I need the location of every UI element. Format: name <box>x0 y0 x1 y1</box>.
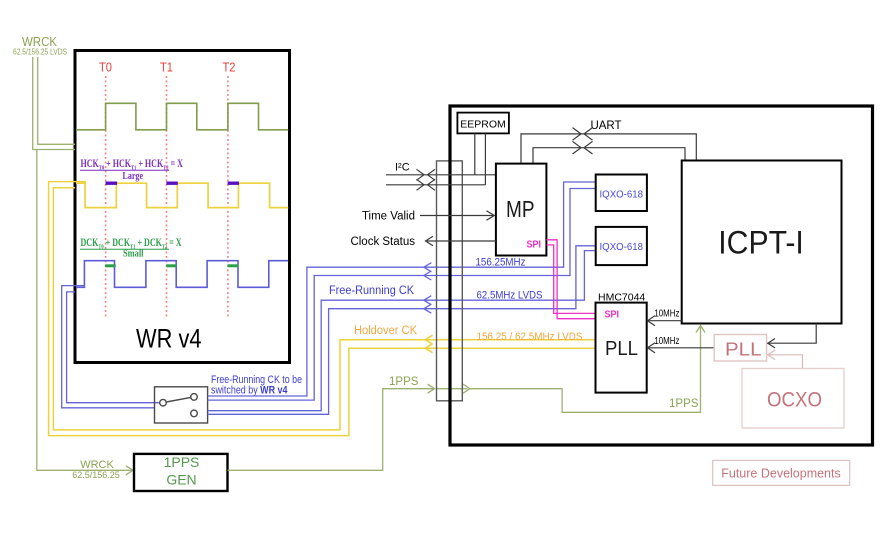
box OCXO (future development, rose) <box>742 369 844 429</box>
svg-text:T0: T0 <box>99 60 112 75</box>
wire WRCK input A (green) <box>33 57 75 150</box>
svg-text:Holdover CK: Holdover CK <box>354 325 417 337</box>
label Time Valid with arrow into MP <box>362 211 494 223</box>
label Free-Running CK <box>329 285 414 297</box>
svg-text:156.25MHz: 156.25MHz <box>476 257 526 269</box>
wire ICPT-I to future PLL (black) <box>768 324 816 348</box>
svg-text:SPI: SPI <box>527 239 542 251</box>
svg-text:I²C: I²C <box>395 162 410 174</box>
svg-text:UART: UART <box>590 120 621 132</box>
svg-text:GEN: GEN <box>166 471 196 487</box>
box WR v4 <box>75 51 290 363</box>
wire OCXO to future PLL (rose) <box>768 350 803 368</box>
box IQXO-618 #1 <box>596 175 647 212</box>
marker line T0 (red dotted) <box>105 76 107 318</box>
label HMC7044 <box>598 292 645 304</box>
label: Free-Running CK to be switched by WR v4 (blue note) <box>211 374 302 397</box>
label WRCK (top left) <box>13 35 67 57</box>
svg-text:Time Valid: Time Valid <box>362 211 415 223</box>
phase marks on HCK at T0,T1,T2 (purple) <box>106 181 240 184</box>
wire 10MHz from ICPT-I to PLL <box>648 316 682 326</box>
box Future Developments legend <box>713 460 850 485</box>
label 10MHz (lower) <box>654 336 679 347</box>
label Clock Status with arrow from MP <box>350 236 495 248</box>
label 1PPS (right, below HMC7044) <box>669 398 699 410</box>
wire switched free-running CK output line 2 (blue): switch to WR box <box>67 292 160 403</box>
box PLL (future development, rose) <box>714 335 766 362</box>
label 156.25 / 62.5MHz LVDS <box>477 331 583 343</box>
svg-text:10MHz: 10MHz <box>654 309 679 320</box>
svg-text:OCXO: OCXO <box>767 388 822 412</box>
svg-text:Future Developments: Future Developments <box>721 467 841 481</box>
label I2C <box>395 162 410 174</box>
svg-text:Large: Large <box>123 171 144 182</box>
wire WRCK input B (green) <box>38 57 75 144</box>
wire SPI line 2 (magenta): MP to HMC7044 <box>546 245 595 314</box>
box PLL (HMC7044) <box>596 303 647 393</box>
svg-text:Small: Small <box>123 249 144 260</box>
svg-text:SPI: SPI <box>605 309 620 321</box>
label SPI (at MP) <box>527 239 542 251</box>
label T0 <box>99 60 112 75</box>
marker line T2 (red dotted) <box>227 76 229 318</box>
box timing module (outer black frame) <box>450 106 873 445</box>
label T1 <box>160 60 173 75</box>
wire I2C line 2 with bidirectional arrowheads <box>386 179 485 190</box>
formula HCK sum (purple) <box>80 158 184 182</box>
label WR v4 <box>136 324 202 354</box>
label Holdover CK <box>354 325 417 337</box>
wire free-running 156.25MHz pair line 1 (blue): switch to IQXO-618 #1 <box>208 182 596 396</box>
label T2 <box>223 60 236 75</box>
wire I2C line 1 with bidirectional arrowheads <box>386 169 496 180</box>
label WRCK (bottom, at 1PPS GEN input) <box>72 459 120 480</box>
svg-text:62.5/156.25 LVDS: 62.5/156.25 LVDS <box>13 48 67 57</box>
waveform HCK holdover (yellow square wave) <box>76 183 288 207</box>
marker line T1 (red dotted) <box>166 76 168 318</box>
wire free-running 62.5MHz pair line 1 (blue): switch to IQXO-618 #2 <box>208 251 596 411</box>
wire holdover CK pair line 2 (yellow): HMC7044 PLL to HCK waveform <box>49 182 596 436</box>
wire free-running 156.25MHz pair line 2 (blue) <box>208 189 596 401</box>
label 156.25MHz <box>476 257 526 269</box>
switch box (clock selector) <box>155 387 208 423</box>
svg-text:62.5/156.25: 62.5/156.25 <box>72 470 120 480</box>
svg-text:10MHz: 10MHz <box>654 336 679 347</box>
wire EEPROM to I2C line 2 <box>484 133 486 184</box>
wire free-running 62.5MHz pair line 2 (blue) <box>208 246 596 414</box>
svg-text:EEPROM: EEPROM <box>460 119 506 131</box>
wire 1PPS from GEN to bus and ICPT-I (green) <box>228 326 706 471</box>
wire holdover CK pair line 1 (yellow): HMC7044 PLL to WR box <box>53 188 595 430</box>
waveform DCK free-running (blue square wave) <box>76 261 288 288</box>
svg-text:IQXO-618: IQXO-618 <box>600 189 644 201</box>
box IQXO-618 #2 <box>596 227 647 265</box>
box 1PPS GEN <box>134 454 228 491</box>
wire SPI line 1 (magenta): MP to HMC7044 <box>546 240 595 319</box>
box MP (microprocessor) <box>496 164 547 256</box>
svg-text:ICPT-I: ICPT-I <box>718 225 804 261</box>
label 62.5MHz LVDS <box>477 290 543 302</box>
box ICPT-I <box>682 161 842 324</box>
svg-text:switched by WR v4: switched by WR v4 <box>211 385 288 397</box>
svg-text:PLL: PLL <box>605 338 638 360</box>
wire 10MHz from future PLL to HMC7044 PLL <box>648 343 715 353</box>
svg-text:1PPS: 1PPS <box>164 454 200 470</box>
svg-text:156.25 / 62.5MHz LVDS: 156.25 / 62.5MHz LVDS <box>477 331 583 343</box>
svg-text:HCKT0 + HCKT1 + HCKT2 = X: HCKT0 + HCKT1 + HCKT2 = X <box>81 158 184 172</box>
box EEPROM <box>457 113 509 134</box>
svg-text:Free-Running CK: Free-Running CK <box>329 285 414 297</box>
wire WRCK branch to 1PPS GEN (green) <box>37 150 133 475</box>
svg-text:T2: T2 <box>223 60 236 75</box>
label 10MHz (upper) <box>654 309 679 320</box>
svg-text:62.5MHz LVDS: 62.5MHz LVDS <box>477 290 543 302</box>
label 1PPS (left of bus) <box>389 376 419 388</box>
svg-text:1PPS: 1PPS <box>669 398 699 410</box>
formula DCK sum (green) <box>80 237 182 260</box>
svg-text:1PPS: 1PPS <box>389 376 419 388</box>
phase marks on DCK at T0,T1,T2 (green) <box>105 264 238 267</box>
bus connector rectangle <box>437 161 463 401</box>
svg-text:T1: T1 <box>160 60 173 75</box>
label UART <box>590 120 621 132</box>
svg-text:PLL: PLL <box>725 339 762 360</box>
wire UART line 1 (MP to ICPT-I) with bidirectional arrowheads <box>521 128 696 164</box>
svg-text:WR v4: WR v4 <box>136 324 202 354</box>
svg-text:MP: MP <box>506 196 535 222</box>
wire EEPROM to I2C line 1 <box>474 133 476 174</box>
svg-text:Clock Status: Clock Status <box>350 236 415 248</box>
wire UART line 2 (MP to ICPT-I) with bidirectional arrowheads <box>533 141 685 163</box>
waveform WRCK (green square wave) <box>76 103 288 130</box>
svg-text:IQXO-618: IQXO-618 <box>600 241 644 253</box>
wire switched free-running CK output line 1 (blue): switch to DCK waveform <box>62 286 155 408</box>
